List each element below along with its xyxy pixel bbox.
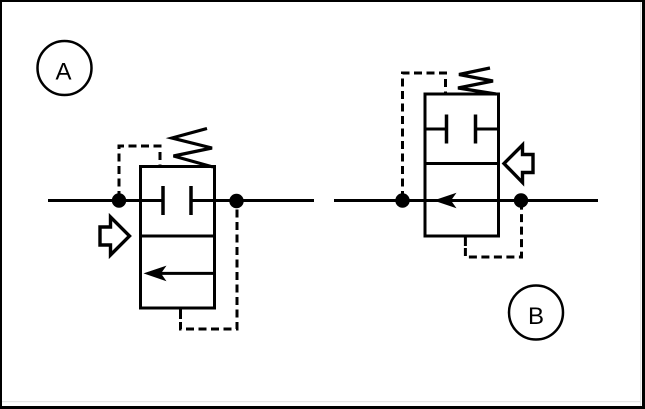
valve V2 blocked port line right <box>476 128 499 131</box>
valve V1 spring <box>172 129 213 168</box>
valve V2 drain stub <box>464 236 467 246</box>
valve V2 position divider <box>425 162 499 165</box>
valve V1 drain line (dashed) <box>181 206 238 329</box>
junction node left of V2 <box>395 193 409 207</box>
node label circle B <box>509 286 563 340</box>
valve V2 blocked port bar left <box>445 115 449 144</box>
valve V1 body outline <box>141 167 215 309</box>
valve V1 blocked port bar left <box>161 186 165 215</box>
node label circle A <box>38 41 92 95</box>
valve V2 drain line (dashed) <box>465 206 521 257</box>
valve V1 drain stub <box>179 308 182 319</box>
actuation block arrow at V2 (pointing left) <box>504 145 533 183</box>
svg-text:B: B <box>528 303 544 330</box>
valve V2 pilot line (dashed) <box>403 73 446 199</box>
junction node left of V1 <box>112 193 126 207</box>
junction node right of V2 <box>514 193 528 207</box>
valve V2 body outline <box>425 94 499 236</box>
valve V1 pilot line (dashed) <box>119 146 160 199</box>
valve V1 flow arrowhead <box>144 266 167 282</box>
wire: left main line (left segment to blocked port) <box>48 199 163 202</box>
svg-text:A: A <box>55 59 71 86</box>
valve V1 position divider <box>141 235 215 238</box>
actuation block arrow at V1 (pointing right) <box>100 217 130 255</box>
valve V1 flow path line <box>160 272 215 275</box>
junction node right of V1 <box>229 194 243 208</box>
wire: left main line (right segment from blocked port) <box>191 199 314 202</box>
valve V2 blocked port bar right <box>474 115 478 144</box>
wire: right main line <box>334 199 598 202</box>
valve V2 flow arrowhead <box>434 193 457 209</box>
valve V2 blocked port line left <box>425 128 447 131</box>
valve V2 spring <box>458 68 496 94</box>
valve V1 blocked port bar right <box>189 186 193 215</box>
